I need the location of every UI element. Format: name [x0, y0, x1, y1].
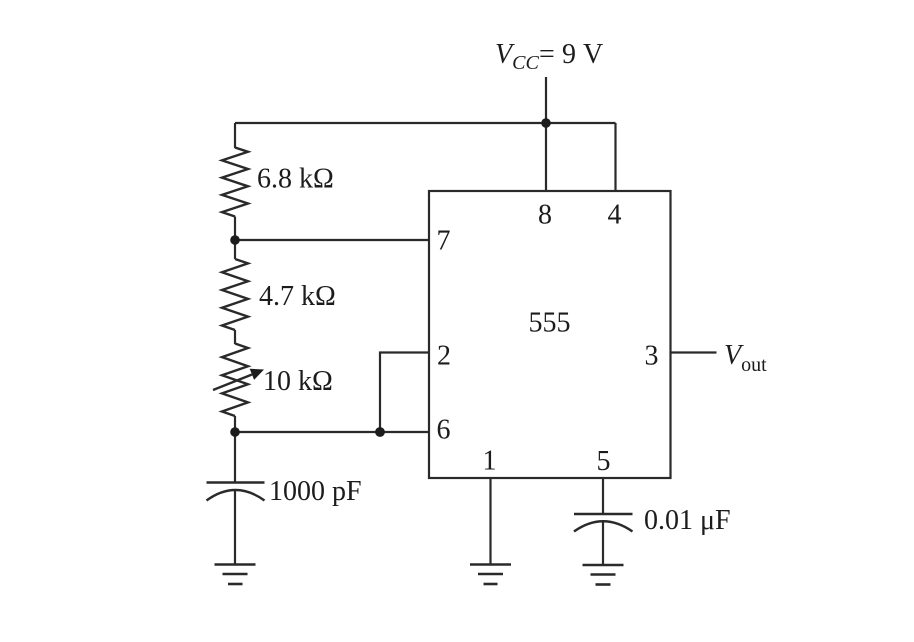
node pin2-pin6 junction	[375, 427, 385, 437]
wire 0.01uF to ground	[602, 522, 604, 566]
svg-text:10 kΩ: 10 kΩ	[263, 366, 333, 397]
svg-text:7: 7	[437, 226, 451, 257]
svg-text:Vout: Vout	[724, 340, 767, 376]
svg-text:555: 555	[529, 308, 571, 339]
svg-text:6.8 kΩ: 6.8 kΩ	[257, 164, 334, 195]
ground left	[215, 565, 256, 585]
wire between R1 and R2	[234, 217, 236, 260]
wire pin 1 drop	[489, 478, 491, 565]
wire pin 6	[235, 431, 429, 433]
potentiometer 10 kOhm	[213, 344, 264, 417]
capacitor 0.01 uF	[574, 514, 633, 532]
wire between R2 and R3	[234, 330, 236, 344]
ground pin 1	[470, 565, 511, 585]
capacitor 1000 pF	[207, 483, 265, 501]
svg-text:4.7 kΩ: 4.7 kΩ	[259, 281, 336, 312]
svg-text:5: 5	[597, 446, 611, 477]
node R1-R2 junction	[230, 235, 240, 245]
svg-text:1: 1	[483, 446, 497, 477]
node Vcc junction	[541, 118, 551, 128]
wire pin 2 branch	[380, 353, 429, 433]
svg-text:0.01 μF: 0.01 μF	[644, 505, 731, 536]
wire R3 to capacitor	[234, 416, 236, 483]
svg-text:2: 2	[437, 341, 451, 372]
resistor 4.7 kOhm	[222, 259, 248, 330]
svg-text:6: 6	[437, 415, 451, 446]
ground pin 5	[583, 565, 624, 585]
wire pin 5 drop	[602, 478, 604, 514]
wire left rail top	[234, 123, 236, 148]
resistor 6.8 kOhm	[222, 148, 248, 217]
svg-text:1000 pF: 1000 pF	[269, 476, 362, 507]
wire pin 3 output	[671, 351, 717, 353]
svg-text:4: 4	[608, 200, 622, 231]
node R3-C1 junction	[230, 427, 240, 437]
svg-text:8: 8	[538, 200, 552, 231]
IC 555 body	[429, 191, 671, 478]
svg-text:VCC=9V: VCC=9V	[495, 39, 603, 74]
wire top rail	[235, 122, 616, 124]
wire capacitor to ground	[234, 490, 236, 565]
wire pin 7	[235, 239, 429, 241]
wire pin 4 drop	[614, 123, 616, 191]
wire pin 8 drop	[545, 123, 547, 191]
wire Vcc stub	[545, 77, 547, 123]
svg-text:3: 3	[645, 341, 659, 372]
